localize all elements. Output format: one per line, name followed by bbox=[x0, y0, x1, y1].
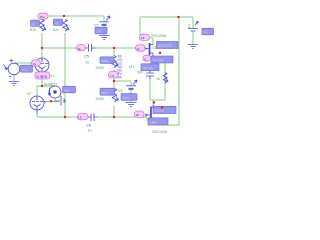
value box X4 drain bbox=[153, 106, 176, 113]
junction dots bbox=[63, 15, 65, 17]
label box V5 bbox=[121, 94, 137, 101]
text directives column bbox=[118, 55, 123, 80]
node oval X3 gate bbox=[136, 45, 146, 51]
svg-text:X1: X1 bbox=[50, 74, 55, 78]
svg-text:V1: V1 bbox=[187, 24, 191, 29]
svg-text:154.2m: 154.2m bbox=[142, 66, 153, 70]
svg-text:15V: 15V bbox=[96, 30, 101, 34]
svg-text:4.3E5: 4.3E5 bbox=[37, 74, 48, 79]
node oval X4 gate bbox=[135, 111, 145, 117]
resistor R2 bbox=[63, 20, 69, 32]
svg-text:774.1mV: 774.1mV bbox=[151, 59, 165, 63]
label box R4 bbox=[100, 88, 115, 95]
wire R1 column / X1 drain bbox=[41, 33, 43, 58]
wire X2 grid link bbox=[44, 98, 59, 102]
node oval X3 drain bbox=[140, 34, 150, 40]
battery V1 bbox=[188, 21, 198, 31]
svg-text:V3: V3 bbox=[94, 24, 99, 28]
source V2 bbox=[4, 59, 20, 77]
svg-text:1u: 1u bbox=[88, 128, 92, 132]
value box X3 right bbox=[157, 42, 179, 49]
resistor R5 small right bbox=[163, 73, 167, 84]
svg-text:7.5: 7.5 bbox=[110, 74, 114, 78]
svg-text:C5: C5 bbox=[84, 55, 89, 59]
svg-text:30k: 30k bbox=[53, 28, 59, 32]
label box R1 bbox=[31, 20, 40, 27]
highlighted value box under X1 bbox=[35, 72, 50, 79]
ground under V5 bbox=[126, 103, 137, 107]
svg-text:0.55V: 0.55V bbox=[122, 96, 130, 100]
svg-text:M1: M1 bbox=[129, 65, 134, 69]
wire top rail right bbox=[140, 16, 193, 18]
svg-text:0.31uC: 0.31uC bbox=[154, 109, 165, 113]
svg-text:2SK1058: 2SK1058 bbox=[151, 34, 166, 38]
wire interstage node y48 bbox=[42, 47, 146, 49]
triode X2 bbox=[30, 96, 46, 114]
wire X2 drain link bbox=[37, 72, 55, 96]
svg-text:X3: X3 bbox=[152, 46, 157, 50]
svg-text:R2: R2 bbox=[55, 22, 59, 26]
resistor R1 bbox=[40, 20, 46, 32]
wire R2 column down to bottom rail bbox=[64, 33, 66, 117]
wire input gate bbox=[14, 62, 35, 64]
resistor R4 300K lower bbox=[112, 89, 118, 103]
ground under V3 bbox=[99, 36, 110, 40]
wire X3 drain path bbox=[140, 17, 153, 44]
label box R3 bbox=[100, 57, 114, 64]
label box R2 bbox=[54, 19, 63, 26]
node oval below R3 bbox=[109, 72, 119, 78]
node oval before C6 bbox=[78, 113, 89, 119]
resistor R3 300K upper bbox=[112, 56, 118, 68]
svg-text:30K: 30K bbox=[30, 28, 37, 32]
triode X1 bbox=[35, 58, 49, 72]
capacitor PC1 bbox=[146, 70, 154, 79]
svg-text:C6: C6 bbox=[86, 124, 91, 128]
svg-text:R1: R1 bbox=[32, 23, 36, 27]
svg-text:300K: 300K bbox=[96, 66, 105, 70]
value box X4 source bbox=[148, 118, 168, 125]
wire V5 branch bbox=[114, 81, 131, 85]
wire V5 lead lower bbox=[130, 89, 132, 102]
current source I1 bbox=[48, 86, 61, 98]
node oval top left bbox=[38, 13, 48, 19]
svg-text:6N4B51: 6N4B51 bbox=[44, 83, 57, 87]
svg-text:1.5uC: 1.5uC bbox=[149, 121, 158, 125]
svg-text:1N5712*2: 1N5712*2 bbox=[158, 44, 172, 48]
svg-text:10m: 10m bbox=[22, 68, 28, 72]
svg-text:1u: 1u bbox=[85, 61, 89, 65]
svg-text:V5: V5 bbox=[118, 89, 123, 93]
label box I1 bbox=[63, 86, 76, 93]
svg-text:300K: 300K bbox=[96, 97, 105, 101]
ground under V1 bbox=[188, 45, 198, 49]
value box X3 source A bbox=[151, 56, 173, 63]
svg-text:X2: X2 bbox=[27, 92, 32, 96]
svg-text:VA:: VA: bbox=[118, 76, 123, 80]
svg-text:300K: 300K bbox=[101, 59, 108, 63]
svg-text:300K: 300K bbox=[101, 91, 108, 95]
capacitor C6 bbox=[88, 114, 97, 122]
value box X3 source B bbox=[141, 64, 159, 71]
capacitor C5 bbox=[85, 44, 95, 52]
wire right column x178 bbox=[154, 17, 179, 125]
svg-text:0.5: 0.5 bbox=[78, 116, 82, 120]
svg-text:2SK1058: 2SK1058 bbox=[152, 130, 167, 134]
wire X3 source risers bbox=[150, 63, 165, 100]
node oval before C5 bbox=[77, 45, 86, 51]
svg-text:15V: 15V bbox=[203, 31, 208, 35]
jfet X4 bbox=[145, 105, 154, 125]
svg-text:1k: 1k bbox=[156, 77, 160, 81]
wire V1 lead bbox=[192, 17, 194, 44]
label box V2 bbox=[21, 65, 33, 72]
svg-text:15: 15 bbox=[141, 36, 145, 40]
wire top rail left bbox=[42, 15, 104, 17]
svg-text:30n: 30n bbox=[137, 71, 143, 75]
label box V3 bbox=[95, 27, 107, 34]
svg-text:15u: 15u bbox=[40, 15, 45, 19]
wire bias column x114 bbox=[113, 48, 115, 117]
wire X4 drain stub bbox=[152, 100, 154, 107]
battery B1 horizontal bbox=[55, 96, 66, 106]
battery V5 bbox=[126, 80, 137, 89]
wire input source ground lead bbox=[13, 75, 15, 81]
wire V3 lead bbox=[103, 16, 105, 35]
wire bottom rail bbox=[37, 113, 147, 117]
label box V1 bbox=[202, 28, 214, 35]
svg-text:2.5m: 2.5m bbox=[64, 89, 71, 93]
battery V3 bbox=[100, 16, 111, 25]
node oval X3 source bbox=[143, 55, 151, 61]
node oval X1 gate bbox=[32, 60, 41, 66]
ground under V2 bbox=[9, 82, 19, 86]
jfet X3 bbox=[144, 44, 153, 57]
